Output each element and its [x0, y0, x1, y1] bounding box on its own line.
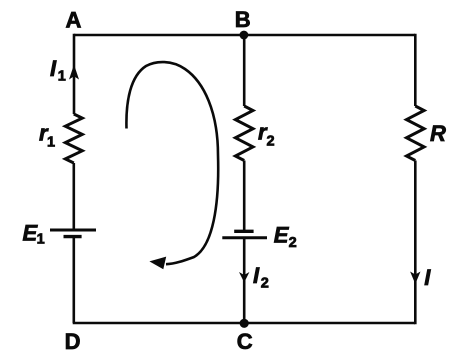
resistor r1: [65, 114, 82, 163]
wire middle branch lower (E2 to C): [243, 238, 246, 323]
wire left branch lower (E1 to D): [73, 237, 76, 323]
battery E2: [222, 231, 267, 238]
node C junction dot: [240, 319, 249, 328]
svg-text:C: C: [237, 329, 253, 353]
resistor r2: [235, 106, 253, 161]
svg-text:E: E: [274, 223, 290, 248]
loop arrowhead: [149, 257, 166, 270]
loop arrow curve (clockwise mesh loop): [126, 62, 218, 264]
svg-text:I: I: [253, 263, 260, 288]
svg-text:1: 1: [58, 69, 66, 85]
svg-text:R: R: [430, 121, 446, 146]
node B junction dot: [240, 31, 249, 40]
resistor R: [407, 106, 425, 161]
wire right branch lower (R to corner): [414, 161, 417, 325]
wire bottom D-C-corner: [73, 322, 415, 325]
svg-text:1: 1: [47, 134, 55, 150]
wire left branch (r1 to E1): [73, 163, 76, 230]
wire top A-B-corner: [74, 34, 415, 37]
svg-text:I: I: [424, 265, 431, 290]
svg-text:1: 1: [37, 232, 45, 248]
wire middle branch upper (B to r2): [243, 35, 246, 106]
svg-text:2: 2: [261, 275, 269, 291]
battery E1: [50, 230, 96, 237]
svg-text:D: D: [65, 329, 81, 353]
svg-text:B: B: [235, 7, 251, 32]
svg-text:2: 2: [289, 235, 297, 251]
wire middle branch (r2 to E2): [243, 161, 246, 232]
svg-text:A: A: [66, 7, 82, 32]
arrowhead current I2 (down): [239, 272, 249, 283]
wire left branch upper (A to r1): [73, 34, 76, 114]
svg-text:I: I: [50, 56, 57, 81]
svg-text:2: 2: [267, 134, 275, 150]
arrowhead current I1 (up): [69, 65, 79, 80]
arrowhead current I (down): [410, 272, 420, 285]
wire right branch upper (corner to R): [414, 34, 417, 106]
